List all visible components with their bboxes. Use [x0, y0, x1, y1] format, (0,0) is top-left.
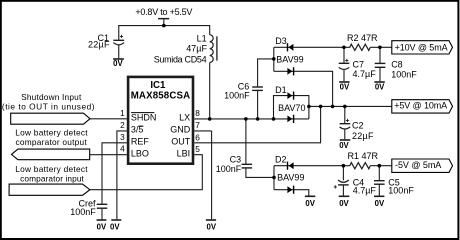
IC1 box — [128, 77, 193, 164]
capacitor C7 plus sign — [345, 59, 348, 62]
capacitor C2 top plate — [340, 123, 351, 125]
flag +5V output — [392, 100, 453, 113]
wire LX rail pin8 — [194, 118, 309, 120]
ground under D2 — [305, 195, 315, 197]
svg-text:0V: 0V — [339, 199, 349, 208]
wire pin1 stub from shutdown flag — [90, 118, 127, 120]
svg-text:BAV70: BAV70 — [278, 103, 305, 113]
svg-text:0V: 0V — [110, 222, 120, 231]
wire C2 to ground — [344, 129, 346, 139]
wire C3 to D2 node — [246, 168, 274, 178]
svg-text:R1 47R: R1 47R — [347, 151, 378, 161]
inductor L1 core bar — [216, 36, 218, 60]
junction node D1 right at +5V — [307, 105, 311, 109]
junction node C8 at +10V — [378, 46, 382, 50]
svg-text:comparator input: comparator input — [20, 174, 84, 184]
capacitor C4 plus sign — [334, 185, 337, 188]
junction node C2 at +5V — [343, 105, 347, 109]
ground under GND pin — [206, 219, 216, 221]
svg-text:100nF: 100nF — [224, 91, 250, 101]
svg-text:MAX858CSA: MAX858CSA — [131, 90, 190, 101]
flag -5V output — [392, 159, 453, 172]
wire Cref to ground — [101, 208, 103, 219]
svg-text:D3: D3 — [275, 36, 287, 46]
svg-text:8: 8 — [195, 108, 200, 118]
junction node D1 left at LX — [272, 117, 276, 121]
svg-text:comparator output: comparator output — [16, 137, 88, 147]
diode D1 upper (right pointing) — [287, 92, 292, 99]
svg-text:0V: 0V — [97, 222, 107, 231]
svg-text:Sumida CD54: Sumida CD54 — [154, 54, 207, 64]
capacitor C8 bottom plate — [375, 66, 386, 68]
wire C6 branch from LX rail — [257, 90, 259, 119]
junction node C7 at +10V — [342, 46, 346, 50]
ground under C1 — [113, 58, 124, 60]
diode D3 upper (left pointing) — [288, 44, 293, 51]
svg-text:REF: REF — [131, 137, 150, 147]
diode pair D3 left vertical — [273, 47, 275, 71]
wire pin2 stub and ground run — [117, 131, 127, 219]
svg-text:LBI: LBI — [177, 148, 191, 158]
ground under C4 — [339, 195, 350, 197]
inductor L1 coil — [210, 35, 214, 63]
svg-text:GND: GND — [170, 124, 191, 134]
flag Low battery detect comparator input — [9, 184, 90, 195]
ground under Cref — [97, 219, 107, 221]
svg-text:+0.8V to +5.5V: +0.8V to +5.5V — [135, 7, 192, 17]
capacitor C1 top plate — [113, 39, 124, 41]
svg-text:D1: D1 — [275, 85, 287, 95]
wire C4 branch — [342, 166, 344, 181]
junction node C3 at D2 — [272, 176, 276, 180]
svg-text:100nF: 100nF — [388, 185, 414, 195]
svg-text:+10V @ 5mA: +10V @ 5mA — [395, 43, 448, 53]
junction node power rail — [162, 24, 166, 28]
junction node L1 at LX — [208, 117, 212, 121]
wire top supply rail — [119, 26, 210, 40]
svg-text:3: 3 — [120, 132, 125, 142]
junction node C3 at LX — [244, 117, 248, 121]
svg-text:7: 7 — [195, 120, 200, 130]
svg-text:-5V @ 5mA: -5V @ 5mA — [395, 160, 441, 170]
svg-text:+5V @ 10mA: +5V @ 10mA — [394, 101, 447, 111]
svg-text:0V: 0V — [340, 83, 350, 92]
wire power bar stem — [163, 19, 165, 25]
wire pin7 GND stub — [194, 130, 211, 132]
capacitor C7 top plate — [339, 62, 350, 64]
svg-text:0V: 0V — [375, 199, 385, 208]
junction node D3 drop at +5V — [331, 105, 335, 109]
wire C4 to ground — [342, 185, 344, 196]
svg-text:C7: C7 — [353, 59, 365, 69]
resistor R1 47R — [344, 163, 370, 169]
wire D2 lower wire to ground — [274, 190, 309, 196]
capacitor C4 bottom plate — [338, 184, 349, 186]
capacitor C3 top plate — [242, 163, 253, 165]
capacitor C3 bottom plate — [242, 167, 253, 169]
wire C8 branch — [379, 47, 381, 63]
capacitor C2 plus sign — [346, 119, 349, 122]
svg-text:5: 5 — [195, 144, 200, 154]
wire pin6 OUT run and rise to +5V rail — [194, 106, 320, 142]
ground pin2 3/5 — [111, 219, 121, 221]
ground under C5 — [374, 195, 384, 197]
svg-text:2: 2 — [120, 120, 125, 130]
wire C5 branch — [378, 166, 380, 181]
svg-text:0V: 0V — [305, 199, 315, 208]
wire GND vertical to ground — [211, 131, 213, 219]
wire +5V rail — [309, 105, 392, 107]
svg-text:D2: D2 — [275, 154, 287, 164]
wire C2 branch — [344, 106, 346, 123]
wire D2 upper wire / -5V rail — [274, 165, 344, 167]
svg-text:L1: L1 — [197, 33, 207, 43]
svg-text:0V: 0V — [207, 222, 217, 231]
wire D3 upper anode segment / +10V rail — [274, 46, 344, 48]
wire pin4 stub from comparator output flag — [90, 154, 127, 156]
junction node C4 at -5V — [342, 164, 346, 168]
svg-text:0V: 0V — [113, 59, 123, 68]
junction node C6 at D3 — [272, 57, 276, 61]
diode D2 lower (right pointing) — [287, 186, 292, 193]
svg-text:BAV99: BAV99 — [276, 54, 303, 64]
wire C5 to ground — [378, 184, 380, 195]
svg-text:SHDN: SHDN — [131, 112, 157, 122]
svg-text:100nF: 100nF — [391, 69, 417, 79]
ground under C8 — [374, 81, 384, 83]
diode D2 upper (left pointing) — [289, 162, 294, 169]
diode D3 lower (right pointing) — [287, 68, 292, 75]
svg-text:R2 47R: R2 47R — [347, 33, 378, 43]
svg-text:4: 4 — [120, 144, 125, 154]
svg-text:LX: LX — [179, 112, 190, 122]
capacitor Cref bottom plate — [97, 207, 108, 209]
power rail bar +0.8V to +5.5V — [158, 18, 169, 20]
wire pin3 REF stub down to Cref — [102, 143, 127, 204]
wire L1 to LX rail — [209, 63, 211, 119]
wire C8 to ground — [379, 67, 381, 81]
wire C7 to ground — [343, 70, 345, 82]
resistor R2 47R — [344, 44, 370, 50]
wire C3 branch from LX rail — [245, 119, 247, 164]
svg-text:0V: 0V — [339, 141, 349, 150]
diode D1 lower (right pointing) — [287, 116, 292, 123]
svg-text:OUT: OUT — [171, 137, 191, 147]
capacitor C6 top plate — [252, 86, 263, 88]
capacitor C1 curved bottom plate — [113, 43, 124, 45]
wire C1 to ground — [118, 45, 120, 58]
capacitor C1 plus sign — [120, 35, 123, 38]
svg-text:C8: C8 — [391, 59, 403, 69]
svg-text:22µF: 22µF — [88, 39, 110, 49]
flag Shutdown Input — [11, 113, 90, 124]
svg-text:1: 1 — [120, 108, 125, 118]
flag Low battery detect comparator output — [12, 149, 90, 160]
svg-text:4.7µF: 4.7µF — [353, 69, 377, 79]
wire C6 to D3 node — [258, 59, 274, 87]
svg-text:Shutdown Input: Shutdown Input — [21, 92, 82, 102]
svg-text:100nF: 100nF — [216, 164, 242, 174]
diode pair D1 BAV70 loop — [274, 96, 309, 119]
diode pair D2 left vertical — [273, 166, 275, 190]
capacitor C5 top plate — [374, 180, 385, 182]
svg-text:LBO: LBO — [131, 148, 149, 158]
capacitor C6 bottom plate — [252, 89, 263, 91]
junction node OUT at +5V — [319, 105, 323, 109]
wire C7 branch — [343, 47, 345, 63]
flag +10V output — [392, 41, 453, 54]
capacitor Cref top plate — [97, 203, 108, 205]
svg-text:22µF: 22µF — [352, 131, 374, 141]
wire D3 lower wire and drop to +5V rail — [274, 71, 333, 106]
svg-text:4.7µF: 4.7µF — [353, 185, 377, 195]
ground under C7 — [339, 81, 349, 83]
junction node C5 at -5V — [378, 164, 382, 168]
ground under C2 — [340, 139, 351, 141]
capacitor C5 bottom plate — [374, 183, 385, 185]
svg-text:100nF: 100nF — [70, 207, 96, 217]
svg-text:(tie to OUT in unused): (tie to OUT in unused) — [2, 102, 95, 112]
svg-text:6: 6 — [195, 132, 200, 142]
svg-text:C2: C2 — [352, 121, 364, 131]
capacitor C7 curved bottom plate — [339, 67, 350, 69]
capacitor C8 top plate — [375, 62, 386, 64]
svg-text:0V: 0V — [375, 83, 385, 92]
svg-text:BAV99: BAV99 — [277, 172, 304, 182]
capacitor C4 curved top plate — [338, 180, 349, 182]
capacitor C2 curved bottom plate — [340, 127, 351, 129]
wire pin5 LBI route to comparator input flag — [90, 155, 202, 190]
svg-text:47µF: 47µF — [186, 43, 207, 53]
junction node C6 at LX — [256, 117, 260, 121]
